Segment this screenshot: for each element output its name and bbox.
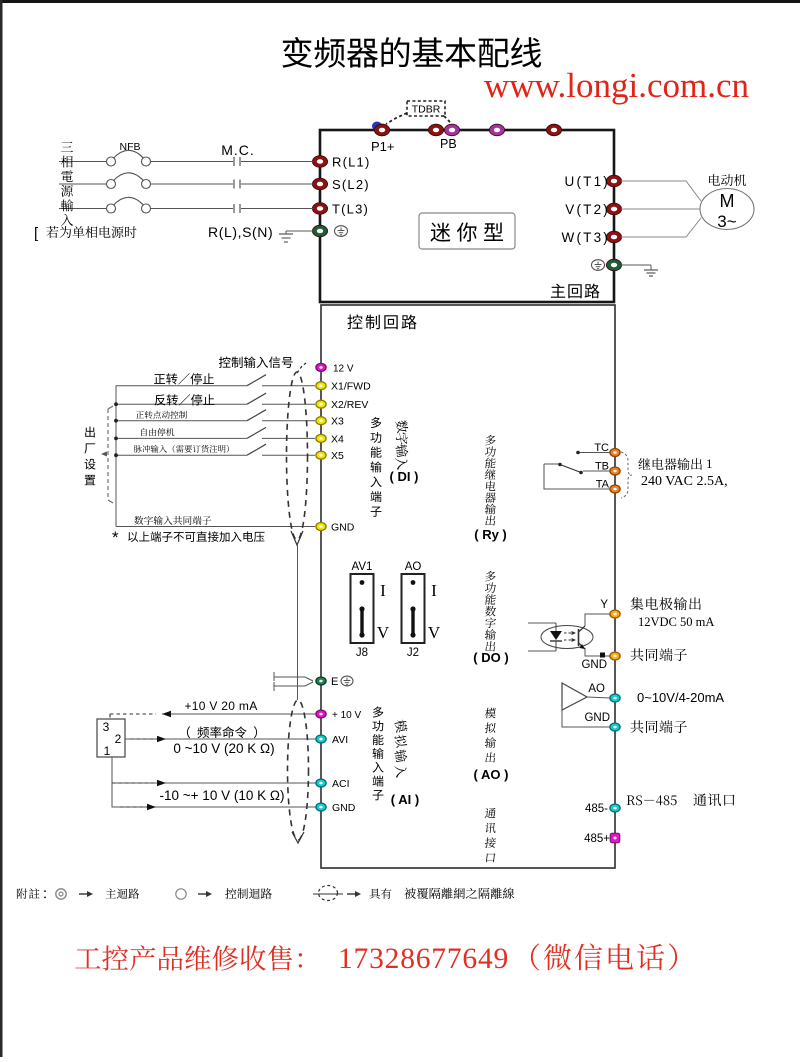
svg-text:S(L2): S(L2)	[332, 177, 370, 192]
svg-text:TDBR: TDBR	[412, 104, 441, 116]
svg-text:NFB: NFB	[120, 141, 141, 153]
svg-text:R(L),S(N): R(L),S(N)	[208, 224, 273, 240]
svg-text:AO: AO	[588, 683, 605, 695]
svg-text:0~10V/4-20mA: 0~10V/4-20mA	[637, 690, 724, 705]
svg-text:ACI: ACI	[332, 778, 350, 790]
svg-text:X3: X3	[331, 416, 344, 428]
svg-text:M: M	[720, 191, 735, 211]
svg-text:X2/REV: X2/REV	[331, 399, 368, 411]
svg-text:Y: Y	[600, 599, 608, 611]
svg-text:V(T2): V(T2)	[565, 202, 610, 217]
svg-text:V: V	[428, 623, 441, 642]
svg-text:I: I	[431, 581, 437, 600]
svg-text:X5: X5	[331, 450, 344, 462]
svg-text:( AI ): ( AI )	[391, 792, 419, 807]
svg-text:( DO ): ( DO )	[473, 650, 508, 665]
svg-text:GND: GND	[332, 802, 356, 814]
svg-text:X4: X4	[331, 433, 344, 445]
svg-text:485-: 485-	[585, 803, 608, 815]
svg-text:( AO ): ( AO )	[474, 767, 509, 782]
svg-text:www.longi.com.cn: www.longi.com.cn	[484, 66, 749, 105]
svg-text:GND: GND	[581, 659, 607, 671]
svg-text:1: 1	[706, 456, 713, 471]
svg-text:R(L1): R(L1)	[332, 155, 371, 170]
svg-text:P1+: P1+	[371, 139, 395, 154]
svg-text:485+: 485+	[584, 833, 610, 845]
svg-text:240 VAC 2.5A,: 240 VAC 2.5A,	[641, 474, 728, 489]
svg-text:AVI: AVI	[332, 734, 348, 746]
svg-text:W(T3): W(T3)	[562, 230, 611, 245]
svg-text:12 V: 12 V	[333, 363, 354, 374]
svg-text:*: *	[112, 528, 119, 547]
svg-text:AV1: AV1	[352, 561, 373, 573]
svg-text:T(L3): T(L3)	[332, 202, 369, 217]
svg-text:M.C.: M.C.	[221, 142, 255, 158]
svg-text:17328677649: 17328677649	[338, 943, 509, 975]
svg-text:( Ry ): ( Ry )	[474, 527, 507, 542]
svg-text:-10 ~+ 10 V (10 K Ω): -10 ~+ 10 V (10 K Ω)	[160, 788, 285, 803]
svg-text:U(T1): U(T1)	[565, 174, 611, 189]
svg-text:12VDC 50 mA: 12VDC 50 mA	[638, 615, 714, 629]
svg-text:2: 2	[115, 732, 122, 746]
svg-text:0 ~10 V (20 K Ω): 0 ~10 V (20 K Ω)	[173, 741, 274, 756]
svg-text:V: V	[377, 623, 390, 642]
svg-text:( DI ): ( DI )	[390, 469, 419, 484]
svg-text:AO: AO	[405, 561, 422, 573]
svg-text:GND: GND	[584, 712, 610, 724]
svg-text:+10 V 20 mA: +10 V 20 mA	[184, 699, 257, 713]
svg-text:PB: PB	[440, 137, 457, 151]
svg-text:X1/FWD: X1/FWD	[331, 381, 371, 393]
svg-text:3: 3	[103, 720, 110, 734]
svg-text:1: 1	[104, 744, 111, 758]
svg-text:J2: J2	[407, 647, 419, 659]
svg-text:I: I	[380, 581, 386, 600]
svg-text:GND: GND	[331, 522, 355, 534]
svg-text:3~: 3~	[717, 212, 736, 231]
svg-text:E: E	[331, 676, 338, 688]
svg-text:+ 10 V: + 10 V	[332, 710, 362, 721]
svg-text:：: ：	[42, 887, 54, 901]
svg-text:J8: J8	[356, 647, 368, 659]
